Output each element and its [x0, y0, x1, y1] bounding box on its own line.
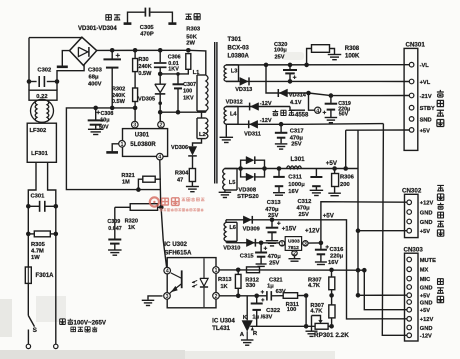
svg-text:200: 200 — [340, 182, 350, 188]
svg-text:C301: C301 — [31, 193, 46, 199]
svg-text:+5V: +5V — [420, 128, 430, 134]
svg-text:LF302: LF302 — [30, 128, 47, 134]
svg-text:C305: C305 — [140, 25, 155, 31]
svg-text:2W: 2W — [186, 41, 195, 47]
svg-text:2: 2 — [215, 294, 218, 300]
svg-text:+5V: +5V — [326, 160, 338, 167]
svg-text:63V: 63V — [276, 289, 286, 295]
svg-text:+15V: +15V — [282, 226, 297, 233]
svg-text:25V: 25V — [299, 212, 309, 218]
svg-text:R320: R320 — [125, 218, 138, 224]
svg-text:2: 2 — [160, 123, 163, 129]
svg-text:25V: 25V — [291, 142, 301, 148]
svg-text:+5V: +5V — [420, 308, 430, 314]
svg-text:R313: R313 — [218, 277, 232, 283]
svg-text:C311: C311 — [288, 175, 302, 181]
svg-text:4.7K: 4.7K — [310, 309, 323, 315]
svg-text:GND: GND — [420, 210, 433, 216]
svg-text:0.047: 0.047 — [108, 226, 122, 232]
svg-text:25V: 25V — [268, 213, 278, 219]
svg-text:SND: SND — [420, 117, 432, 123]
svg-text:C303: C303 — [88, 68, 103, 74]
svg-text:470μ: 470μ — [290, 135, 304, 141]
svg-text:3: 3 — [304, 241, 307, 247]
svg-text:100: 100 — [287, 307, 297, 313]
svg-text:4.1V: 4.1V — [290, 100, 302, 106]
svg-text:C313: C313 — [267, 200, 282, 206]
svg-text:1000μ: 1000μ — [288, 182, 305, 188]
svg-text:1M: 1M — [122, 179, 130, 185]
svg-text:4.7K: 4.7K — [308, 283, 321, 289]
svg-text:C302: C302 — [37, 68, 51, 74]
svg-text:BCX-03: BCX-03 — [228, 45, 250, 51]
svg-text:470μ: 470μ — [297, 206, 311, 212]
svg-text:-12V: -12V — [420, 334, 432, 340]
svg-text:C322: C322 — [266, 308, 281, 314]
svg-text:VD306: VD306 — [171, 145, 188, 151]
svg-text:VD311: VD311 — [244, 132, 261, 138]
svg-text:330: 330 — [246, 283, 256, 289]
svg-text:VD309: VD309 — [243, 227, 260, 233]
svg-text:+5V: +5V — [323, 212, 335, 219]
svg-text:47: 47 — [177, 178, 183, 184]
svg-text:-12V: -12V — [260, 118, 272, 124]
svg-text:470μ: 470μ — [268, 254, 282, 260]
svg-text:+12V: +12V — [420, 201, 434, 207]
svg-text:16V: 16V — [288, 189, 298, 195]
svg-text:1: 1 — [121, 142, 124, 148]
svg-text:A: A — [240, 332, 245, 338]
svg-text:3: 3 — [133, 123, 136, 129]
svg-text:4: 4 — [158, 155, 161, 161]
svg-text:C308: C308 — [101, 111, 114, 117]
svg-text:GND: GND — [420, 220, 433, 226]
svg-text:4: 4 — [316, 108, 319, 114]
svg-text:1K: 1K — [220, 284, 228, 290]
svg-text:400V: 400V — [88, 81, 102, 87]
svg-text:50V: 50V — [339, 112, 349, 118]
svg-text:IC U302: IC U302 — [164, 241, 187, 248]
svg-text:1: 1 — [215, 268, 218, 274]
svg-text:25V: 25V — [269, 260, 279, 266]
svg-text:LF301: LF301 — [31, 151, 49, 157]
svg-text:U301: U301 — [135, 133, 150, 139]
svg-text:+5V: +5V — [420, 229, 430, 235]
svg-text:R303: R303 — [186, 26, 201, 32]
svg-text:R30: R30 — [138, 57, 148, 63]
svg-text:+VL: +VL — [420, 80, 431, 86]
svg-text:240K: 240K — [112, 93, 125, 99]
svg-text:C317: C317 — [290, 129, 304, 135]
svg-text:VD305: VD305 — [138, 96, 155, 102]
svg-text:R302: R302 — [112, 86, 125, 92]
svg-text:L2: L2 — [199, 132, 206, 138]
svg-text:STPS20: STPS20 — [237, 194, 259, 200]
svg-text:R306: R306 — [340, 174, 355, 180]
svg-text:VD313: VD313 — [235, 87, 252, 93]
svg-text:+12V: +12V — [420, 317, 434, 323]
svg-text:U303: U303 — [288, 238, 300, 244]
svg-text:C316: C316 — [330, 247, 345, 253]
svg-text:R308: R308 — [345, 46, 360, 52]
svg-text:1K: 1K — [128, 225, 135, 231]
svg-text:R305: R305 — [31, 242, 46, 248]
svg-text:C309: C309 — [107, 219, 120, 225]
svg-text:+5V: +5V — [420, 294, 430, 300]
svg-text:4558: 4558 — [295, 112, 309, 118]
svg-text:100V~265V: 100V~265V — [74, 319, 107, 326]
svg-text:R304: R304 — [175, 171, 189, 177]
svg-text:4.7M: 4.7M — [31, 249, 44, 255]
svg-text:L4: L4 — [230, 111, 237, 117]
svg-text:C312: C312 — [298, 199, 312, 205]
svg-text:VD314: VD314 — [289, 92, 307, 98]
svg-text:K: K — [243, 315, 248, 321]
svg-text:25V: 25V — [275, 55, 285, 61]
svg-text:5L0380R: 5L0380R — [130, 141, 156, 148]
svg-text:VD308: VD308 — [238, 187, 257, 193]
svg-text:IC U304: IC U304 — [212, 318, 235, 325]
svg-text:0.5W: 0.5W — [138, 71, 152, 77]
svg-text:R: R — [253, 331, 258, 337]
svg-text:1KV: 1KV — [168, 66, 179, 72]
svg-text:4: 4 — [166, 269, 169, 275]
svg-text:T301: T301 — [228, 37, 242, 43]
svg-text:L3: L3 — [231, 69, 238, 75]
svg-text:240K: 240K — [138, 64, 151, 70]
svg-text:L1: L1 — [193, 70, 201, 76]
svg-text:MX: MX — [420, 268, 429, 274]
svg-text:CN301: CN301 — [406, 42, 426, 49]
svg-text:GND: GND — [420, 300, 433, 306]
svg-text:RP301 2.2K: RP301 2.2K — [314, 332, 349, 339]
svg-text:L301: L301 — [291, 156, 306, 163]
svg-text:3: 3 — [166, 294, 169, 300]
svg-text:+12V: +12V — [305, 228, 320, 235]
svg-text:VD310: VD310 — [223, 246, 240, 252]
svg-text:C315: C315 — [240, 253, 255, 259]
svg-text:-VL: -VL — [420, 63, 430, 69]
svg-text:-21V: -21V — [420, 94, 432, 100]
svg-text:16V: 16V — [328, 260, 338, 266]
svg-text:470P: 470P — [140, 32, 154, 38]
svg-text:L0380A: L0380A — [228, 54, 250, 60]
svg-text:1: 1 — [281, 241, 284, 247]
svg-text:50V: 50V — [99, 125, 109, 131]
svg-text:GND: GND — [420, 326, 433, 332]
svg-text:MIC: MIC — [420, 277, 430, 283]
svg-text:S: S — [33, 327, 38, 334]
svg-text:CN302: CN302 — [402, 188, 422, 195]
svg-text:220μ: 220μ — [330, 254, 344, 260]
svg-text:CN303: CN303 — [404, 246, 424, 253]
svg-text:10μ: 10μ — [100, 118, 109, 124]
svg-text:0.5W: 0.5W — [112, 99, 126, 105]
svg-text:R321: R321 — [121, 173, 134, 179]
svg-text:F301A: F301A — [36, 273, 55, 279]
svg-text:STBY: STBY — [420, 106, 435, 112]
svg-text:VD312: VD312 — [226, 99, 243, 105]
svg-text:-12V: -12V — [260, 101, 272, 107]
svg-text:GND: GND — [420, 285, 433, 291]
svg-text:100K: 100K — [345, 54, 360, 60]
svg-text:1μ: 1μ — [267, 283, 274, 289]
svg-text:MUTE: MUTE — [420, 258, 436, 264]
svg-text:SFH615A: SFH615A — [164, 249, 192, 256]
svg-text:C307: C307 — [183, 82, 196, 88]
svg-text:50K: 50K — [186, 34, 197, 40]
svg-text:TL431: TL431 — [212, 325, 230, 332]
svg-text:100: 100 — [183, 88, 192, 94]
svg-text:L5: L5 — [229, 180, 236, 186]
svg-text:100μ: 100μ — [274, 47, 287, 53]
svg-text:L6: L6 — [229, 225, 236, 231]
svg-text:1μ /63V: 1μ /63V — [252, 315, 272, 321]
svg-text:C306: C306 — [168, 55, 181, 61]
svg-text:1W: 1W — [31, 255, 40, 261]
svg-text:1KV: 1KV — [183, 96, 194, 102]
svg-text:VD301-VD304: VD301-VD304 — [78, 26, 117, 32]
svg-text:68μ: 68μ — [89, 75, 99, 81]
